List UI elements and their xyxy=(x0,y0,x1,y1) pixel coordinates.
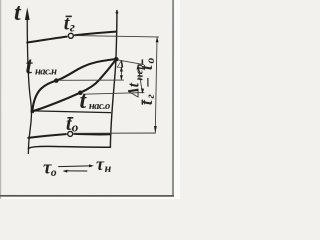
flow arrow tau_o (to the right) xyxy=(59,165,90,168)
svg-text:о: о xyxy=(51,167,57,179)
arrowhead right of tau_o flow arrow xyxy=(89,164,94,167)
arrowhead up of tg-to dimension xyxy=(156,37,159,42)
label tau_o xyxy=(43,157,57,179)
label Delta t_per (rotated) xyxy=(126,63,146,98)
svg-text:н: н xyxy=(105,161,112,175)
svg-text:г: г xyxy=(70,20,75,35)
ink blob at top of right boundary line xyxy=(116,11,119,14)
label t_o with macron xyxy=(66,113,79,135)
horizontal line at left-vertex level xyxy=(32,111,110,113)
macron of rotated t_o xyxy=(142,59,144,64)
mean water temperature curve t_o (left part) xyxy=(28,134,66,138)
paper background xyxy=(0,0,180,199)
thin reference line from t_g level to dimension xyxy=(76,36,159,37)
bottom axis (abscissa) xyxy=(28,146,110,148)
svg-text:Δ: Δ xyxy=(116,59,124,71)
axis arrowhead xyxy=(25,7,30,20)
svg-text:нас.н: нас.н xyxy=(35,66,57,77)
gas temperature curve t_g (right part) xyxy=(75,32,116,36)
node: t_nas.n mean dot xyxy=(54,78,59,83)
arrowhead down of tg-to dimension xyxy=(154,126,157,133)
gas temperature curve t_g (left part) xyxy=(27,37,66,43)
right vertical boundary line xyxy=(110,11,117,148)
marker circle on t_o curve xyxy=(68,131,73,136)
label tau_n xyxy=(96,154,112,175)
upper saturation curve t_nas.n xyxy=(32,59,116,111)
node: left vertex dot xyxy=(30,109,34,113)
svg-text:нас.о: нас.о xyxy=(89,101,110,112)
thin reference line from t_o level to dimension xyxy=(74,132,155,134)
dimension line Delta xyxy=(120,68,122,80)
lower saturation curve t_nas.o xyxy=(32,59,116,111)
dimension line tg - to xyxy=(155,37,157,131)
mean water temperature curve t_o (right part) xyxy=(74,133,110,136)
page frame left edge xyxy=(0,0,1,199)
thin reference line from t_nas.o dot xyxy=(83,93,144,95)
label t_nas.o xyxy=(79,88,110,114)
macron of rotated t_g xyxy=(142,100,144,105)
flow arrow tau_n (to the left) xyxy=(67,170,87,172)
label t_nas.n xyxy=(26,53,58,79)
label t_g with macron xyxy=(64,12,75,35)
marker circle on t_g curve xyxy=(68,33,73,38)
thin reference line from t_nas.n dot xyxy=(59,79,124,81)
label tg - to (rotated, with macrons) xyxy=(137,56,157,105)
arrowhead left of tau_n flow arrow xyxy=(63,170,68,173)
sloped reference line from right vertex xyxy=(117,60,143,65)
page frame bottom edge xyxy=(0,195,174,197)
t axis (vertical, hand-drawn wobble) xyxy=(27,13,31,154)
svg-text:о: о xyxy=(72,119,79,134)
arrowhead down of Delta dimension xyxy=(120,75,123,80)
arrowhead up of Delta t_per dimension xyxy=(137,64,140,69)
arrowhead down of Delta t_per dimension xyxy=(141,88,144,93)
node: right vertex dot xyxy=(114,57,119,62)
page frame right edge xyxy=(172,0,174,197)
node: t_nas.o mean dot xyxy=(78,91,83,96)
dimension line Delta t_per xyxy=(138,65,142,93)
arrowhead up of Delta dimension xyxy=(120,67,123,72)
